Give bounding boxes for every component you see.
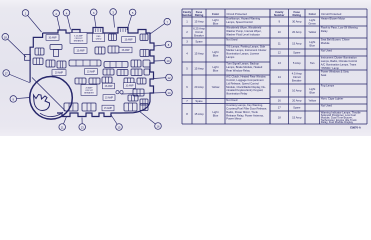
fuse upper-left small 2	[33, 58, 43, 65]
fuse row 1 small fuse	[109, 34, 117, 41]
steering column opening (large circle)	[30, 77, 73, 120]
fuse: 20 AMP circuit breaker box	[81, 85, 97, 96]
callout circle 8	[165, 41, 172, 48]
callout circle 3	[110, 9, 117, 16]
callout circle 9	[10, 96, 17, 103]
svg-text:Light: Light	[213, 65, 219, 69]
svg-text:18: 18	[4, 35, 7, 39]
svg-text:15: 15	[278, 89, 282, 93]
svg-text:Fog Lamps: Fog Lamps	[321, 84, 335, 88]
fuse row 3 right	[131, 60, 141, 67]
callout circle 7	[164, 18, 171, 25]
fuse row 4	[131, 69, 142, 76]
svg-text:Tan: Tan	[310, 61, 315, 65]
callout circle 5	[129, 9, 136, 16]
svg-text:Washer Fluid Level Indicator: Washer Fluid Level Indicator	[226, 32, 260, 36]
fuse: 15 AMP box row 7	[103, 95, 115, 101]
svg-text:Breaker: Breaker	[194, 34, 204, 38]
callout 6 leader wire	[94, 16, 96, 28]
callout circle 14	[166, 89, 173, 96]
svg-text:Flash to Pass, Low Oil Warning: Flash to Pass, Low Oil Warning	[321, 26, 358, 30]
bus bar left	[69, 60, 101, 66]
svg-text:13: 13	[81, 126, 84, 130]
svg-text:10 Amp: 10 Amp	[292, 89, 302, 93]
callout circle 18	[2, 34, 9, 41]
fuse: 15 AMP label row 2a	[74, 48, 87, 54]
svg-text:Marker Lamps, Instrument Clust: Marker Lamps, Instrument Cluster	[226, 48, 266, 52]
svg-text:Seat: Seat	[321, 73, 327, 77]
svg-text:Circuit Protected: Circuit Protected	[227, 12, 248, 16]
left fuse table grid	[182, 9, 270, 124]
svg-text:Not Used: Not Used	[321, 49, 333, 53]
svg-text:Illumination Lamps, License: Illumination Lamps, License	[226, 51, 259, 55]
svg-text:5 Amp: 5 Amp	[293, 61, 301, 65]
svg-text:Relay: Relay	[321, 29, 328, 33]
svg-text:Light: Light	[309, 18, 315, 22]
bus bar right	[104, 62, 128, 68]
svg-text:RED: RED	[96, 36, 101, 38]
fuse row 3 left 2	[57, 61, 66, 68]
svg-text:Horn, Cigar Lighter: Horn, Cigar Lighter	[321, 97, 344, 101]
svg-text:Radio, Power Mirror, Trunk: Radio, Power Mirror, Trunk	[226, 110, 258, 114]
svg-text:CIRCUIT: CIRCUIT	[74, 38, 83, 40]
callout 15 leader wire	[110, 114, 117, 124]
fuse row 2	[108, 46, 119, 53]
svg-text:Blue: Blue	[213, 68, 219, 72]
svg-text:Color: Color	[309, 12, 317, 16]
callout 8 leader wire	[155, 45, 166, 46]
fuse: 20 AMP label above steering opening	[52, 70, 66, 76]
fuse: 15 AMP box bottom	[102, 105, 114, 111]
fuse row 7 right	[140, 99, 148, 105]
callout circle 2	[53, 10, 60, 17]
fuse row 4 right edge	[144, 69, 150, 75]
svg-text:Blue: Blue	[213, 53, 219, 57]
svg-text:Light: Light	[213, 110, 219, 114]
fuse connector circles	[116, 91, 119, 94]
fuse: 30 AMP label top-left	[46, 35, 59, 41]
callout circle 4	[63, 9, 70, 16]
fuse row 5	[75, 78, 86, 84]
callout circle 10	[165, 57, 172, 64]
svg-text:Rating: Rating	[292, 13, 301, 17]
svg-text:16: 16	[157, 125, 160, 129]
svg-text:Not Used: Not Used	[226, 38, 238, 42]
left-edge tab of panel	[25, 55, 31, 61]
fuse: 15 AMP box row 6	[103, 83, 115, 89]
fuse row 5	[124, 78, 134, 84]
callout circle 11	[59, 124, 66, 131]
svg-text:T/S Lamps, Parking Lamps, Side: T/S Lamps, Parking Lamps, Side	[226, 45, 265, 49]
callout 18 leader wire	[8, 39, 26, 57]
svg-text:16: 16	[278, 99, 282, 103]
inner arc detail at bottom of steering opening	[40, 112, 63, 116]
fuse: 6.25 AMP circuit breaker box	[70, 33, 87, 44]
callout 12 leader wire	[154, 77, 166, 80]
svg-text:Blue: Blue	[213, 114, 219, 118]
svg-text:Spare: Spare	[293, 51, 301, 55]
svg-text:Light: Light	[309, 40, 315, 44]
svg-text:Color: Color	[212, 12, 220, 16]
svg-text:Yellow: Yellow	[308, 30, 316, 34]
callout 10 leader wire	[155, 60, 165, 62]
svg-text:15 Amp: 15 Amp	[292, 116, 302, 120]
svg-text:15 Amp: 15 Amp	[194, 20, 204, 24]
callout circle 15	[116, 124, 123, 131]
svg-text:Fuse: Fuse	[196, 10, 203, 14]
fuse row 3 far right	[143, 60, 150, 67]
fuse row 2 right	[140, 50, 149, 57]
callout 2 leader wire	[57, 16, 60, 30]
fuse: RED USED box	[93, 33, 105, 41]
svg-text:Light: Light	[213, 50, 219, 54]
callout circle 13	[79, 124, 86, 131]
fuse row 6 right	[133, 89, 144, 96]
svg-text:15 Amp: 15 Amp	[194, 52, 204, 56]
svg-text:6.25 Amp: 6.25 Amp	[193, 27, 205, 31]
svg-text:17: 17	[278, 106, 282, 110]
svg-text:Module: Module	[321, 41, 330, 45]
svg-text:Blue: Blue	[309, 43, 315, 47]
svg-text:Light: Light	[309, 87, 315, 91]
svg-text:20 Amp: 20 Amp	[292, 99, 302, 103]
svg-text:30 Amp: 30 Amp	[292, 20, 302, 24]
T-shaped fuse below 30 AMP	[50, 45, 62, 50]
svg-text:Circuit: Circuit	[293, 75, 301, 79]
svg-text:A/C Clutch, Heated Rear Window: A/C Clutch, Heated Rear Window	[226, 75, 265, 79]
svg-text:Green: Green	[308, 21, 316, 25]
fuse: 15 AMP box row 1	[122, 37, 136, 43]
svg-text:Dashlamps, Hazard Warning: Dashlamps, Hazard Warning	[226, 17, 260, 21]
svg-text:Circuit: Circuit	[195, 30, 203, 34]
svg-text:Lamps, Speed Control: Lamps, Speed Control	[226, 20, 253, 24]
svg-text:Circuit Protected: Circuit Protected	[321, 12, 342, 16]
svg-text:Not Used: Not Used	[321, 104, 333, 108]
svg-text:Illumination Relay: Illumination Relay	[226, 92, 248, 96]
fuse row 8	[64, 103, 78, 111]
fuse row 8	[124, 103, 137, 111]
svg-text:Spare: Spare	[195, 40, 203, 44]
svg-text:Release Relay, Power Antenna,: Release Relay, Power Antenna,	[226, 113, 264, 117]
callout 9 leader wire	[17, 98, 30, 99]
callout 7 leader wire	[150, 24, 165, 34]
fuse row 2	[95, 47, 105, 54]
svg-text:Lid Release, Speed Control: Lid Release, Speed Control	[226, 81, 259, 85]
svg-text:A/C Illumination Lamps, Trans: A/C Illumination Lamps, Trans	[321, 62, 357, 66]
svg-text:Power Windows & Sixty: Power Windows & Sixty	[321, 70, 350, 74]
callout 11 leader wire	[63, 117, 66, 124]
svg-text:15 Amp: 15 Amp	[292, 42, 302, 46]
svg-text:Number: Number	[274, 13, 285, 17]
fuse row 4	[117, 70, 128, 76]
callout circle 16	[155, 123, 162, 130]
svg-text:Power Mirror: Power Mirror	[226, 117, 241, 121]
svg-text:13: 13	[278, 61, 282, 65]
fuse panel outline (top edge with tabs, right edge with tabs, rounded bottom-right)	[43, 28, 154, 117]
svg-text:Courtesy Lamps, Key Warning,: Courtesy Lamps, Key Warning,	[226, 103, 263, 107]
fuse upper-left small	[35, 48, 44, 55]
fuse row 5	[137, 78, 146, 84]
svg-text:15: 15	[118, 126, 121, 130]
svg-text:Control, Luggage Compartment: Control, Luggage Compartment	[226, 78, 263, 82]
callout 13 leader wire	[81, 118, 83, 124]
fuse row 7	[128, 95, 138, 101]
svg-text:Spare: Spare	[195, 99, 203, 103]
fuse: 10 AMP box row 6	[124, 83, 136, 89]
svg-text:20 Amp: 20 Amp	[194, 85, 204, 89]
svg-text:Module, Clock/Radio Display, I: Module, Clock/Radio Display, Illu-	[226, 85, 266, 89]
svg-text:Yellow: Yellow	[308, 99, 316, 103]
callout 17 leader wire	[9, 74, 30, 83]
svg-text:15 Amp: 15 Amp	[194, 67, 204, 71]
svg-text:minated Keyless Entry Keypad,: minated Keyless Entry Keypad,	[226, 88, 263, 92]
svg-text:Relay, Fuel Module Display: Relay, Fuel Module Display	[321, 120, 354, 124]
callout 4 leader wire	[67, 16, 70, 30]
svg-text:E9876-A: E9876-A	[350, 126, 361, 130]
svg-text:14: 14	[278, 75, 282, 79]
fuse: 15 AMP label row 4	[85, 69, 98, 75]
svg-text:Lamps, Brake Module, Heated: Lamps, Brake Module, Heated	[226, 65, 262, 69]
svg-text:Blue: Blue	[309, 90, 315, 94]
svg-text:11: 11	[278, 42, 281, 46]
svg-text:Cavity: Cavity	[183, 10, 192, 14]
svg-text:Not Used: Not Used	[226, 98, 238, 102]
svg-text:Washer Pump, Interval Wiper,: Washer Pump, Interval Wiper,	[226, 29, 261, 33]
svg-text:12: 12	[168, 76, 171, 80]
callout circle 1	[22, 10, 29, 17]
fuse row 3 left	[46, 60, 55, 67]
svg-text:Windshield Wiper, Windshield: Windshield Wiper, Windshield	[226, 26, 262, 30]
svg-text:Yellow: Yellow	[212, 85, 220, 89]
callout 14 leader wire	[121, 93, 166, 94]
svg-text:Cavity: Cavity	[275, 10, 284, 14]
fuse row 4	[103, 69, 114, 75]
callout circle 6	[90, 9, 97, 16]
svg-text:Instrument Cluster Illuminatio: Instrument Cluster Illumination	[321, 56, 357, 60]
svg-text:Blue: Blue	[213, 21, 219, 25]
svg-text:18: 18	[278, 116, 282, 120]
svg-text:Seat Belt Buzzer, Chime: Seat Belt Buzzer, Chime	[321, 38, 350, 42]
callout circle 12	[166, 74, 173, 81]
svg-text:10: 10	[167, 59, 170, 63]
svg-text:Lamps: Lamps	[226, 55, 235, 59]
fuse row 8	[82, 103, 96, 111]
fuse row 5	[102, 77, 112, 83]
svg-text:10: 10	[278, 30, 282, 34]
callout 5 leader wire	[127, 16, 132, 30]
svg-text:4.5 Amp: 4.5 Amp	[292, 72, 303, 76]
fuse: 15 AMP label row 2b	[119, 47, 132, 53]
svg-text:Fuse: Fuse	[294, 10, 301, 14]
svg-text:Number: Number	[182, 13, 193, 17]
callout 16 leader wire	[139, 111, 155, 124]
svg-text:14: 14	[168, 91, 171, 95]
callout circle 17	[3, 70, 10, 77]
svg-text:CIRCUIT: CIRCUIT	[85, 90, 94, 92]
tick marks in top tabs	[95, 29, 97, 33]
svg-text:15 Amp: 15 Amp	[194, 112, 204, 116]
fuse row 8 right	[140, 104, 148, 111]
svg-text:Turn Signal Lamps, Backup: Turn Signal Lamps, Backup	[226, 62, 259, 66]
fuse row 5	[89, 78, 100, 84]
fuse panel left edge (stepped)	[30, 33, 42, 82]
right fuse table grid	[270, 9, 367, 124]
svg-text:12: 12	[278, 51, 282, 55]
svg-text:Rating: Rating	[195, 13, 204, 17]
svg-text:Courtesy/Fuel Filler Door Rele: Courtesy/Fuel Filler Door Release,	[226, 106, 267, 110]
svg-text:Lamps, Radio, Climate Control: Lamps, Radio, Climate Control	[321, 59, 358, 63]
svg-text:USED: USED	[96, 39, 102, 41]
callout 3 leader wire	[113, 15, 114, 27]
svg-text:Rear Window Relay: Rear Window Relay	[226, 68, 250, 72]
svg-text:“PRNDL” Lamp: “PRNDL” Lamp	[321, 66, 340, 70]
svg-text:Light: Light	[213, 18, 219, 22]
svg-text:20 Amp: 20 Amp	[292, 30, 302, 34]
fuse row 1 right fuse	[140, 34, 148, 41]
svg-text:Spare: Spare	[293, 106, 301, 110]
svg-text:Breaker: Breaker	[292, 79, 302, 83]
notch inside steering column opening	[34, 95, 50, 111]
callout 1 leader wire	[28, 15, 42, 32]
chord line across steering opening	[32, 78, 66, 112]
svg-text:Heater Blower Motor: Heater Blower Motor	[321, 17, 345, 21]
svg-text:17: 17	[5, 72, 8, 76]
